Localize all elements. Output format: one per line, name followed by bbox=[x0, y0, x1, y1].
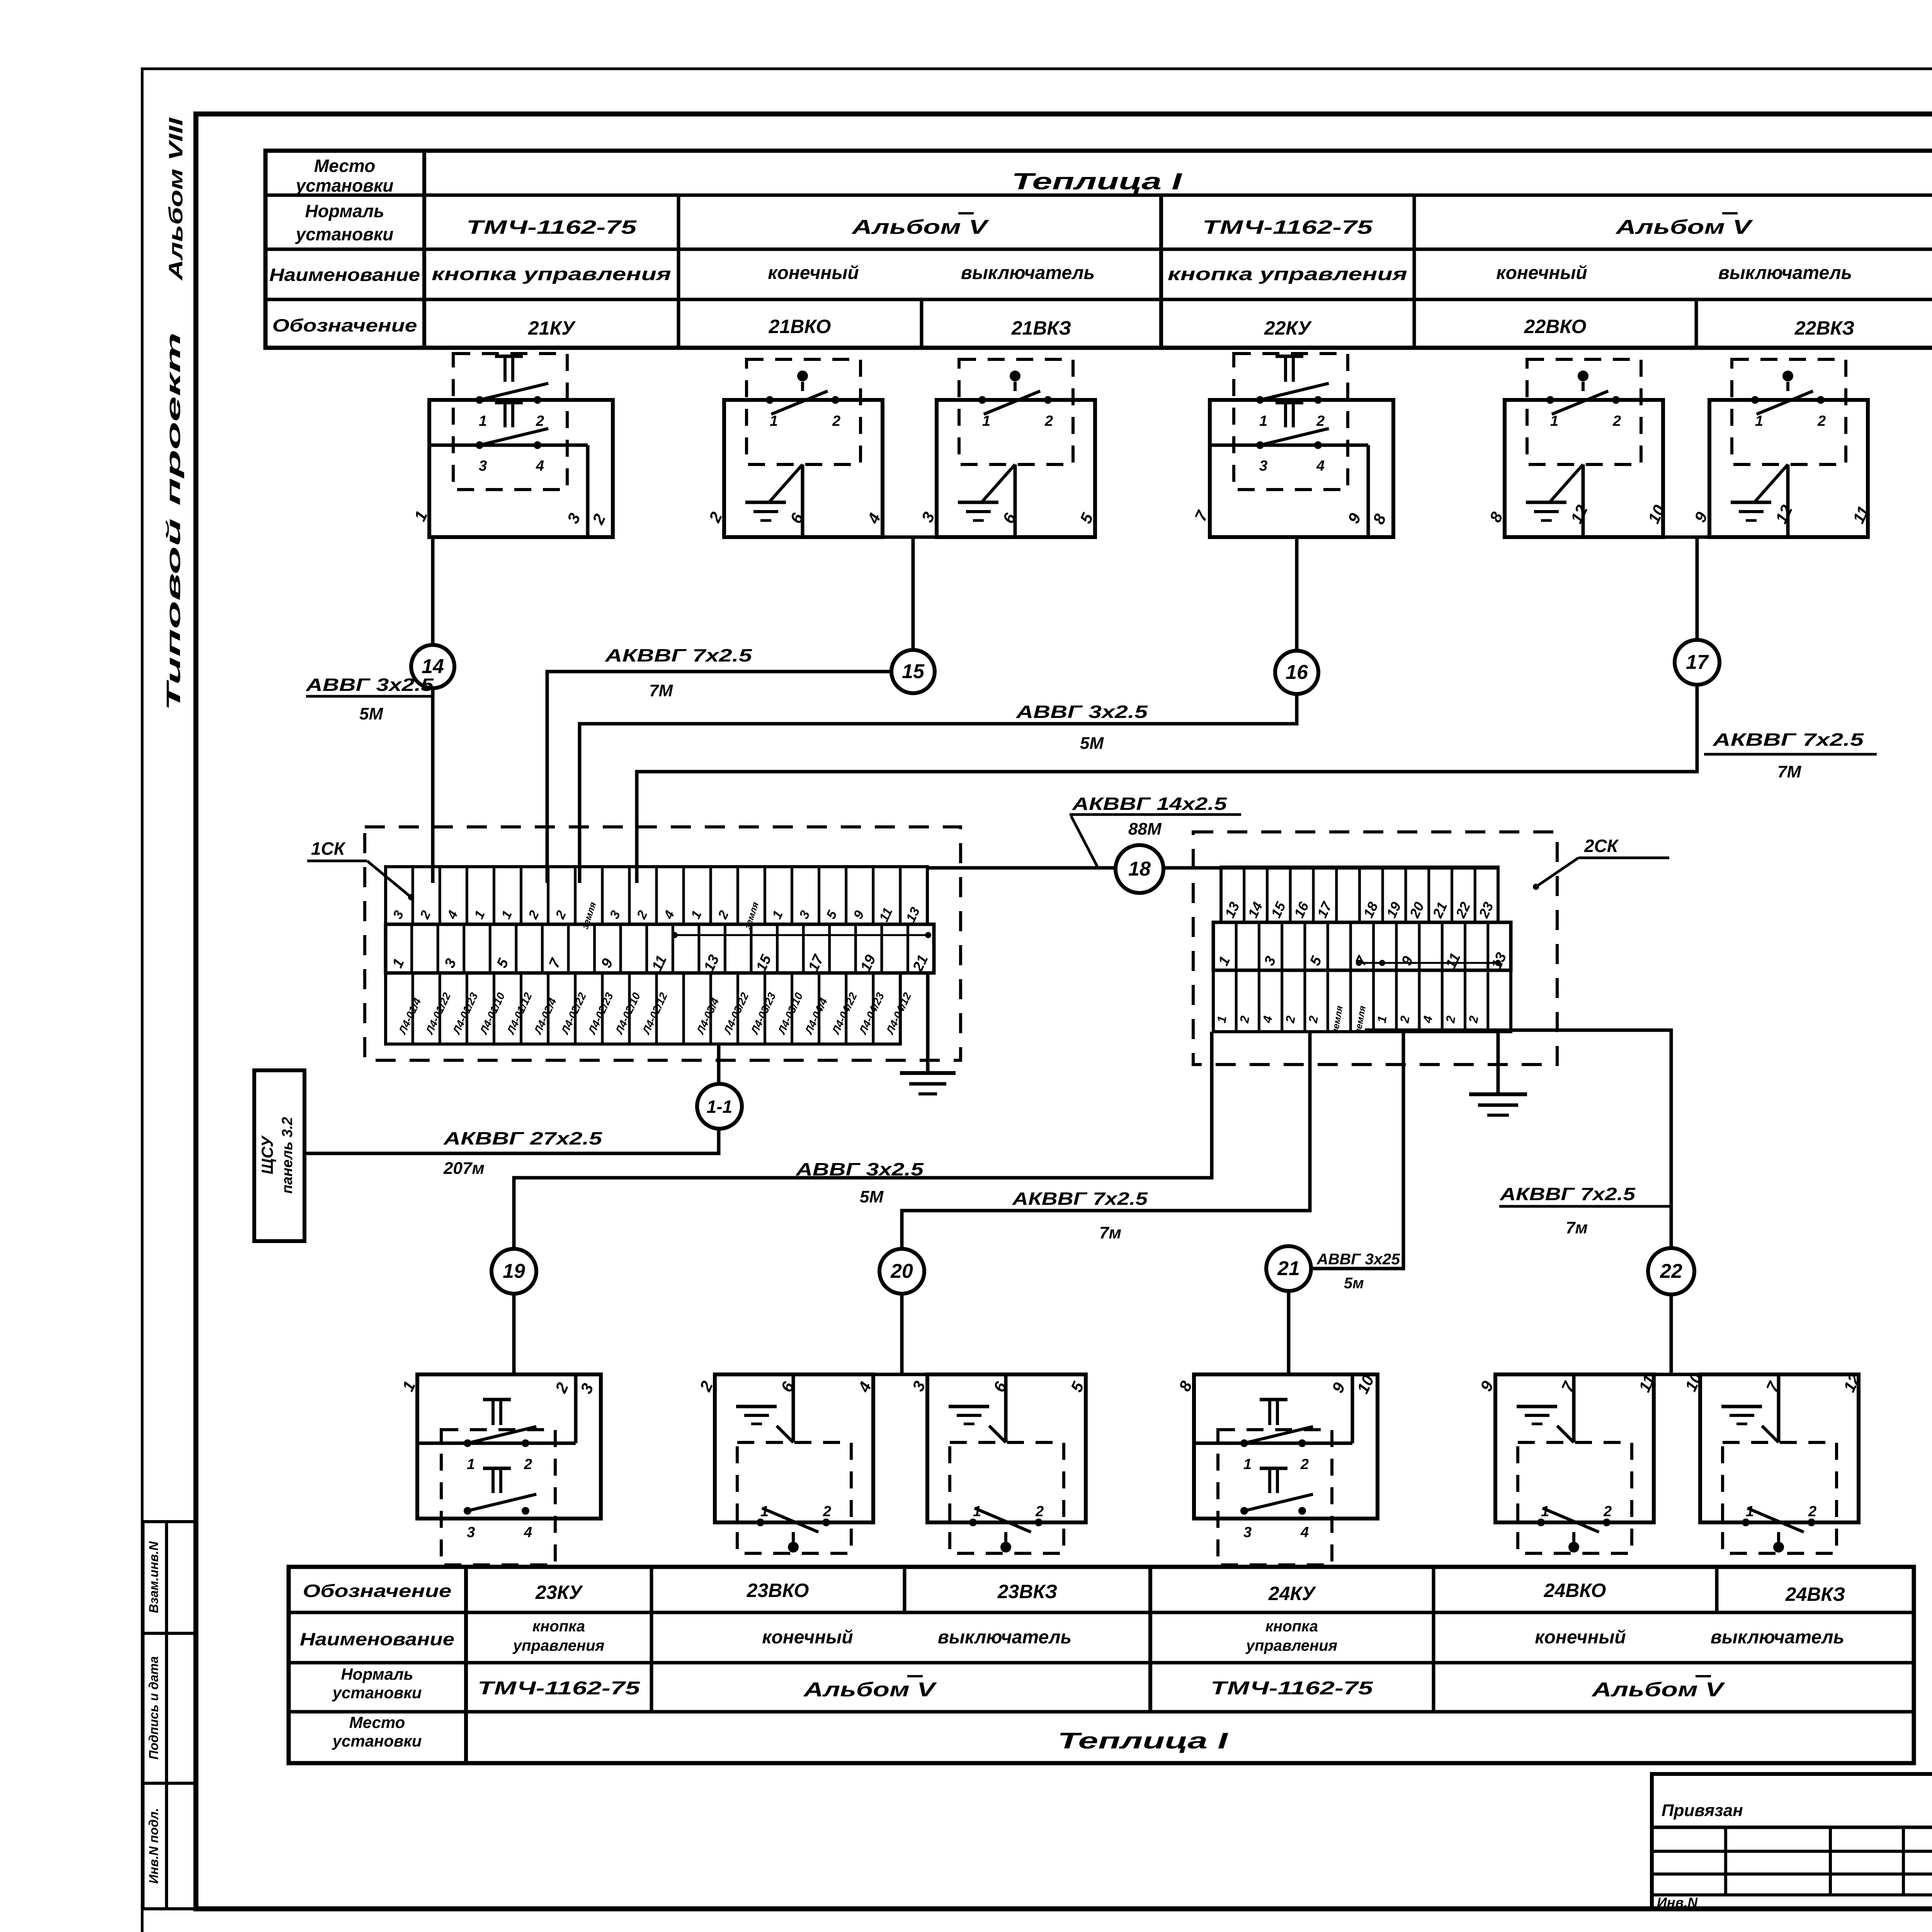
svg-text:Нормаль: Нормаль bbox=[305, 201, 384, 221]
svg-text:выключатель: выключатель bbox=[1711, 1627, 1844, 1648]
wire: 21ВКО/21ВКЗ riser to circle 15 to box 1СК bbox=[547, 537, 913, 883]
cable marker 18 bbox=[1116, 845, 1163, 893]
svg-text:АКВВГ 7х2.5: АКВВГ 7х2.5 bbox=[1012, 1189, 1148, 1209]
svg-text:конечный: конечный bbox=[1535, 1627, 1626, 1648]
svg-text:24ВКО: 24ВКО bbox=[1544, 1580, 1606, 1601]
wire: box 2СК to circle 20 to 23ВКО/23ВКЗ bbox=[902, 1032, 1310, 1374]
wire: box 2СК to circle 22 to 24ВКО/24ВКЗ bbox=[1365, 1030, 1671, 1374]
svg-text:1: 1 bbox=[1755, 413, 1763, 429]
svg-text:Альбом V: Альбом V bbox=[851, 216, 990, 238]
svg-text:1: 1 bbox=[1746, 1503, 1754, 1520]
svg-text:2: 2 bbox=[1316, 413, 1325, 429]
svg-text:4: 4 bbox=[536, 458, 544, 474]
limit switch 24ВКЗ bbox=[1682, 1370, 1864, 1553]
limit switch 22ВКО bbox=[1486, 359, 1668, 537]
cable marker 1-1 bbox=[697, 1084, 742, 1129]
svg-text:Наименование: Наименование bbox=[300, 1629, 454, 1649]
svg-text:Место: Место bbox=[349, 1713, 405, 1731]
junction box 1СК enclosure (dashed) bbox=[365, 827, 961, 1060]
svg-text:1: 1 bbox=[1243, 1456, 1252, 1473]
terminal strip 1СК upper row bbox=[386, 867, 927, 930]
svg-text:конечный: конечный bbox=[762, 1627, 853, 1648]
svg-text:Обозначение: Обозначение bbox=[303, 1581, 452, 1601]
svg-text:установки: установки bbox=[332, 1684, 422, 1702]
wire: ЩСУ feeder to circle 1-1 to box 1СК bbox=[304, 1044, 719, 1153]
svg-text:выключатель: выключатель bbox=[1718, 263, 1852, 283]
table: binding box (Привязан) bbox=[1652, 1774, 1932, 1910]
svg-text:1: 1 bbox=[467, 1456, 475, 1473]
svg-text:кнопка: кнопка bbox=[532, 1618, 585, 1635]
svg-text:23КУ: 23КУ bbox=[535, 1582, 583, 1603]
svg-text:Инв.N: Инв.N bbox=[1657, 1895, 1698, 1910]
svg-text:7М: 7М bbox=[649, 681, 673, 700]
svg-text:панель 3.2: панель 3.2 bbox=[279, 1117, 296, 1194]
cable marker 21 bbox=[1266, 1246, 1311, 1291]
limit switch 23ВКО bbox=[696, 1374, 875, 1553]
svg-text:конечный: конечный bbox=[768, 263, 859, 283]
wire: 22КУ to circle 16 to box 1СК bbox=[580, 537, 1297, 883]
wire: box 2СК to circle 21 to 24КУ bbox=[1289, 1032, 1403, 1374]
svg-text:2: 2 bbox=[832, 413, 840, 429]
svg-text:АВВГ 3х2.5: АВВГ 3х2.5 bbox=[1016, 702, 1148, 722]
svg-text:управления: управления bbox=[512, 1637, 604, 1654]
limit switch 24ВКО bbox=[1477, 1372, 1659, 1553]
svg-text:17: 17 bbox=[1686, 651, 1709, 673]
svg-text:Инв.N подл.: Инв.N подл. bbox=[146, 1808, 161, 1884]
svg-text:Теплица I: Теплица I bbox=[1012, 168, 1182, 194]
cable marker 20 bbox=[879, 1249, 924, 1294]
wire: box 1СК to circle 18 to box 2СК bbox=[927, 866, 1498, 870]
svg-text:21ВКЗ: 21ВКЗ bbox=[1011, 317, 1071, 339]
svg-text:Взам.инв.N: Взам.инв.N bbox=[146, 1541, 161, 1613]
svg-text:3: 3 bbox=[467, 1524, 475, 1541]
svg-text:выключатель: выключатель bbox=[961, 263, 1095, 283]
svg-text:Обозначение: Обозначение bbox=[272, 315, 417, 335]
ground of box 2СК bbox=[1469, 1032, 1527, 1115]
svg-text:5М: 5М bbox=[1080, 734, 1104, 753]
svg-text:2: 2 bbox=[1817, 413, 1826, 429]
push-button station 21КУ bbox=[411, 354, 613, 537]
svg-text:1СК: 1СК bbox=[311, 838, 346, 859]
terminal strip 2СК main row bbox=[1213, 922, 1511, 972]
svg-text:ТМЧ-1162-75: ТМЧ-1162-75 bbox=[478, 1678, 641, 1699]
svg-text:2: 2 bbox=[1035, 1503, 1044, 1520]
svg-text:7м: 7м bbox=[1099, 1223, 1121, 1242]
svg-text:1: 1 bbox=[760, 1503, 769, 1520]
svg-text:АКВВГ 14х2.5: АКВВГ 14х2.5 bbox=[1072, 794, 1228, 814]
svg-text:1-1: 1-1 bbox=[707, 1097, 732, 1117]
svg-text:установки: установки bbox=[295, 175, 394, 196]
svg-text:Альбом V: Альбом V bbox=[1615, 216, 1753, 238]
svg-text:2СК: 2СК bbox=[1584, 836, 1619, 856]
svg-text:5М: 5М bbox=[860, 1187, 884, 1206]
svg-text:Место: Место bbox=[314, 156, 375, 176]
wire: 22ВКО/22ВКЗ riser to circle 17 to box 1СК bbox=[637, 537, 1697, 883]
svg-text:ЩСУ: ЩСУ bbox=[258, 1135, 276, 1174]
svg-text:2: 2 bbox=[823, 1503, 831, 1520]
wire: connector 22ВКО-22ВКЗ bbox=[1663, 536, 1709, 539]
svg-text:15: 15 bbox=[902, 660, 925, 683]
jumper with junction dots inside 2СК bbox=[1359, 962, 1498, 964]
svg-text:Наименование: Наименование bbox=[269, 265, 420, 285]
svg-text:2: 2 bbox=[536, 413, 544, 429]
svg-text:3: 3 bbox=[479, 458, 487, 474]
cable marker 16 bbox=[1275, 651, 1318, 694]
jumper with junction dots inside 1СК bbox=[675, 934, 928, 936]
svg-text:кнопка управления: кнопка управления bbox=[1168, 264, 1407, 284]
svg-text:88М: 88М bbox=[1128, 820, 1162, 838]
svg-text:установки: установки bbox=[332, 1732, 422, 1750]
svg-text:21ВКО: 21ВКО bbox=[769, 316, 831, 337]
svg-text:АКВВГ 7х2.5: АКВВГ 7х2.5 bbox=[1500, 1184, 1636, 1204]
svg-text:кнопка: кнопка bbox=[1265, 1618, 1318, 1635]
terminal strip 2СК lower row bbox=[1213, 970, 1511, 1034]
svg-text:3: 3 bbox=[1259, 458, 1267, 474]
svg-text:ТМЧ-1162-75: ТМЧ-1162-75 bbox=[1211, 1678, 1374, 1699]
svg-text:Нормаль: Нормаль bbox=[341, 1665, 413, 1683]
svg-text:22КУ: 22КУ bbox=[1264, 317, 1312, 339]
svg-text:16: 16 bbox=[1286, 661, 1308, 684]
svg-text:2: 2 bbox=[1808, 1503, 1816, 1520]
cable marker 14 bbox=[411, 645, 454, 688]
svg-text:2: 2 bbox=[1603, 1503, 1612, 1520]
svg-text:22: 22 bbox=[1660, 1260, 1682, 1282]
wire: box 2СК to circle 19 to 23КУ bbox=[514, 1032, 1212, 1374]
svg-text:22ВКЗ: 22ВКЗ bbox=[1794, 317, 1855, 339]
svg-text:1: 1 bbox=[1259, 413, 1267, 429]
wire: 21КУ to circle 14 to box 1СК bbox=[431, 537, 435, 883]
svg-text:Подпись и дата: Подпись и дата bbox=[146, 1656, 161, 1760]
svg-text:2: 2 bbox=[1300, 1456, 1309, 1473]
svg-text:2: 2 bbox=[1612, 413, 1621, 429]
push-button station 22КУ bbox=[1191, 354, 1393, 537]
cable marker 19 bbox=[492, 1249, 536, 1294]
svg-text:7М: 7М bbox=[1777, 762, 1801, 781]
svg-text:АВВГ 3х25: АВВГ 3х25 bbox=[1316, 1251, 1400, 1268]
svg-text:18: 18 bbox=[1128, 858, 1151, 880]
svg-text:207м: 207м bbox=[443, 1159, 485, 1178]
wire: connector 24ВКО-24ВКЗ bbox=[1654, 1373, 1700, 1376]
limit switch 21ВКО bbox=[705, 359, 884, 537]
svg-text:АКВВГ 7х2.5: АКВВГ 7х2.5 bbox=[605, 645, 753, 665]
push-button station 24КУ bbox=[1175, 1372, 1378, 1565]
svg-text:5м: 5м bbox=[1344, 1275, 1364, 1292]
wire: connector 23ВКО-23ВКЗ bbox=[873, 1373, 927, 1376]
cable marker 15 bbox=[891, 650, 935, 693]
limit switch 23ВКЗ bbox=[909, 1374, 1088, 1553]
svg-text:3: 3 bbox=[1243, 1524, 1252, 1541]
svg-text:19: 19 bbox=[503, 1260, 525, 1282]
cable marker 17 bbox=[1675, 640, 1719, 685]
svg-text:1: 1 bbox=[1541, 1503, 1549, 1520]
limit switch 22ВКЗ bbox=[1691, 359, 1873, 537]
svg-text:Привязан: Привязан bbox=[1662, 1801, 1743, 1820]
terminal strip 1СК main row bbox=[386, 924, 934, 975]
left filing strip table bbox=[141, 1522, 145, 1909]
svg-text:22ВКО: 22ВКО bbox=[1524, 316, 1587, 337]
svg-text:21КУ: 21КУ bbox=[528, 317, 576, 339]
svg-text:1: 1 bbox=[973, 1503, 981, 1520]
svg-text:1: 1 bbox=[479, 413, 487, 429]
svg-text:4: 4 bbox=[524, 1524, 532, 1541]
svg-text:конечный: конечный bbox=[1496, 263, 1587, 283]
terminal strip 1СК cable core labels bbox=[386, 973, 913, 1044]
svg-text:1: 1 bbox=[1550, 413, 1558, 429]
svg-text:Альбом V: Альбом V bbox=[1591, 1679, 1725, 1701]
table: lower equipment table (Теплица I) bbox=[289, 1567, 1914, 1763]
svg-text:Теплица I: Теплица I bbox=[1058, 1728, 1229, 1753]
ground of box 1СК bbox=[900, 973, 956, 1094]
svg-text:1: 1 bbox=[770, 413, 778, 429]
svg-text:АВВГ 3х2.5: АВВГ 3х2.5 bbox=[306, 675, 434, 695]
svg-text:20: 20 bbox=[890, 1260, 913, 1282]
svg-text:4: 4 bbox=[1316, 458, 1325, 474]
terminal strip 2СК upper row bbox=[1221, 867, 1498, 922]
table: upper equipment table (Теплица I) bbox=[265, 151, 1932, 348]
svg-text:21: 21 bbox=[1277, 1257, 1300, 1280]
wire: connector 21ВКО-21ВКЗ bbox=[883, 536, 937, 539]
svg-text:7м: 7м bbox=[1566, 1218, 1588, 1237]
svg-text:ТМЧ-1162-75: ТМЧ-1162-75 bbox=[1202, 216, 1373, 238]
svg-text:управления: управления bbox=[1245, 1637, 1337, 1654]
svg-text:установки: установки bbox=[295, 224, 394, 244]
junction box 2СК enclosure (dashed) bbox=[1193, 832, 1557, 1065]
svg-text:2: 2 bbox=[1044, 413, 1053, 429]
svg-text:23ВКО: 23ВКО bbox=[747, 1580, 809, 1601]
svg-text:выключатель: выключатель bbox=[938, 1627, 1071, 1648]
panel ЩСУ панель 3.2 bbox=[254, 1070, 304, 1241]
svg-text:ТМЧ-1162-75: ТМЧ-1162-75 bbox=[466, 216, 637, 238]
svg-text:24КУ: 24КУ bbox=[1268, 1583, 1316, 1604]
svg-text:2: 2 bbox=[524, 1456, 532, 1473]
svg-text:кнопка управления: кнопка управления bbox=[432, 264, 671, 284]
cable marker 22 bbox=[1648, 1248, 1694, 1294]
svg-text:АВВГ 3х2.5: АВВГ 3х2.5 bbox=[796, 1159, 924, 1179]
push-button station 23КУ bbox=[399, 1374, 601, 1565]
svg-text:Типовой проект: Типовой проект bbox=[163, 332, 184, 711]
svg-text:АКВВГ 27х2.5: АКВВГ 27х2.5 bbox=[443, 1128, 603, 1148]
svg-text:АКВВГ 7х2.5: АКВВГ 7х2.5 bbox=[1713, 730, 1864, 750]
limit switch 21ВКЗ bbox=[918, 359, 1097, 537]
svg-text:24ВКЗ: 24ВКЗ bbox=[1785, 1583, 1845, 1605]
svg-text:1: 1 bbox=[982, 413, 990, 429]
svg-text:5М: 5М bbox=[359, 704, 383, 723]
svg-text:4: 4 bbox=[1300, 1524, 1309, 1541]
svg-text:Альбом VIII: Альбом VIII bbox=[165, 117, 187, 281]
svg-text:Альбом V: Альбом V bbox=[803, 1679, 937, 1701]
svg-text:23ВКЗ: 23ВКЗ bbox=[997, 1581, 1058, 1602]
